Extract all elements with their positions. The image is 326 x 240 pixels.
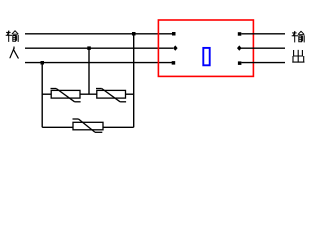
wire: output line 2	[240, 47, 285, 49]
varistor RV3	[73, 119, 104, 132]
wire: input line 2	[25, 47, 173, 49]
wire: bottom rail left segment to RV3	[42, 126, 73, 128]
varistor RV1	[51, 89, 81, 102]
terminal arrow: input pin 2	[173, 45, 178, 50]
terminal square: output pin 1	[238, 32, 242, 36]
wire: input line 3	[25, 62, 172, 64]
junction dot on line 3 (node A)	[41, 61, 45, 65]
wire: vertical from node A down to bottom rail	[41, 63, 43, 128]
wire: input line 1	[25, 33, 172, 35]
label 出 (output, bottom char)	[293, 50, 304, 62]
wire: output line 3	[241, 62, 285, 64]
component (blue rectangle) inside enclosure	[203, 48, 209, 65]
wire: lead between RV1 and RV2	[80, 93, 97, 95]
wire: lead from vertical A to RV1	[42, 93, 51, 95]
junction dot on line 1 (node C)	[132, 32, 136, 36]
junction dot on line 2 (node B)	[87, 46, 91, 50]
label 入 (input, bottom char)	[10, 47, 18, 58]
wire: lead from RV2 to vertical C	[126, 93, 134, 95]
wire: output line 1	[241, 33, 285, 35]
terminal square: output pin 3	[238, 61, 242, 65]
wire: vertical from node B down to varistor rail	[88, 48, 90, 94]
wire: vertical from node C down to bottom rail	[133, 34, 135, 128]
wire: bottom rail right segment from RV3	[103, 126, 134, 128]
enclosure box (red)	[158, 20, 253, 76]
terminal square: input pin 3	[172, 61, 176, 65]
label 输 (input, top char)	[6, 31, 18, 42]
varistor RV2	[96, 89, 126, 102]
terminal arrow: output pin 2	[237, 45, 242, 50]
terminal square: input pin 1	[172, 32, 176, 36]
label 输 (output, top char)	[292, 31, 304, 42]
